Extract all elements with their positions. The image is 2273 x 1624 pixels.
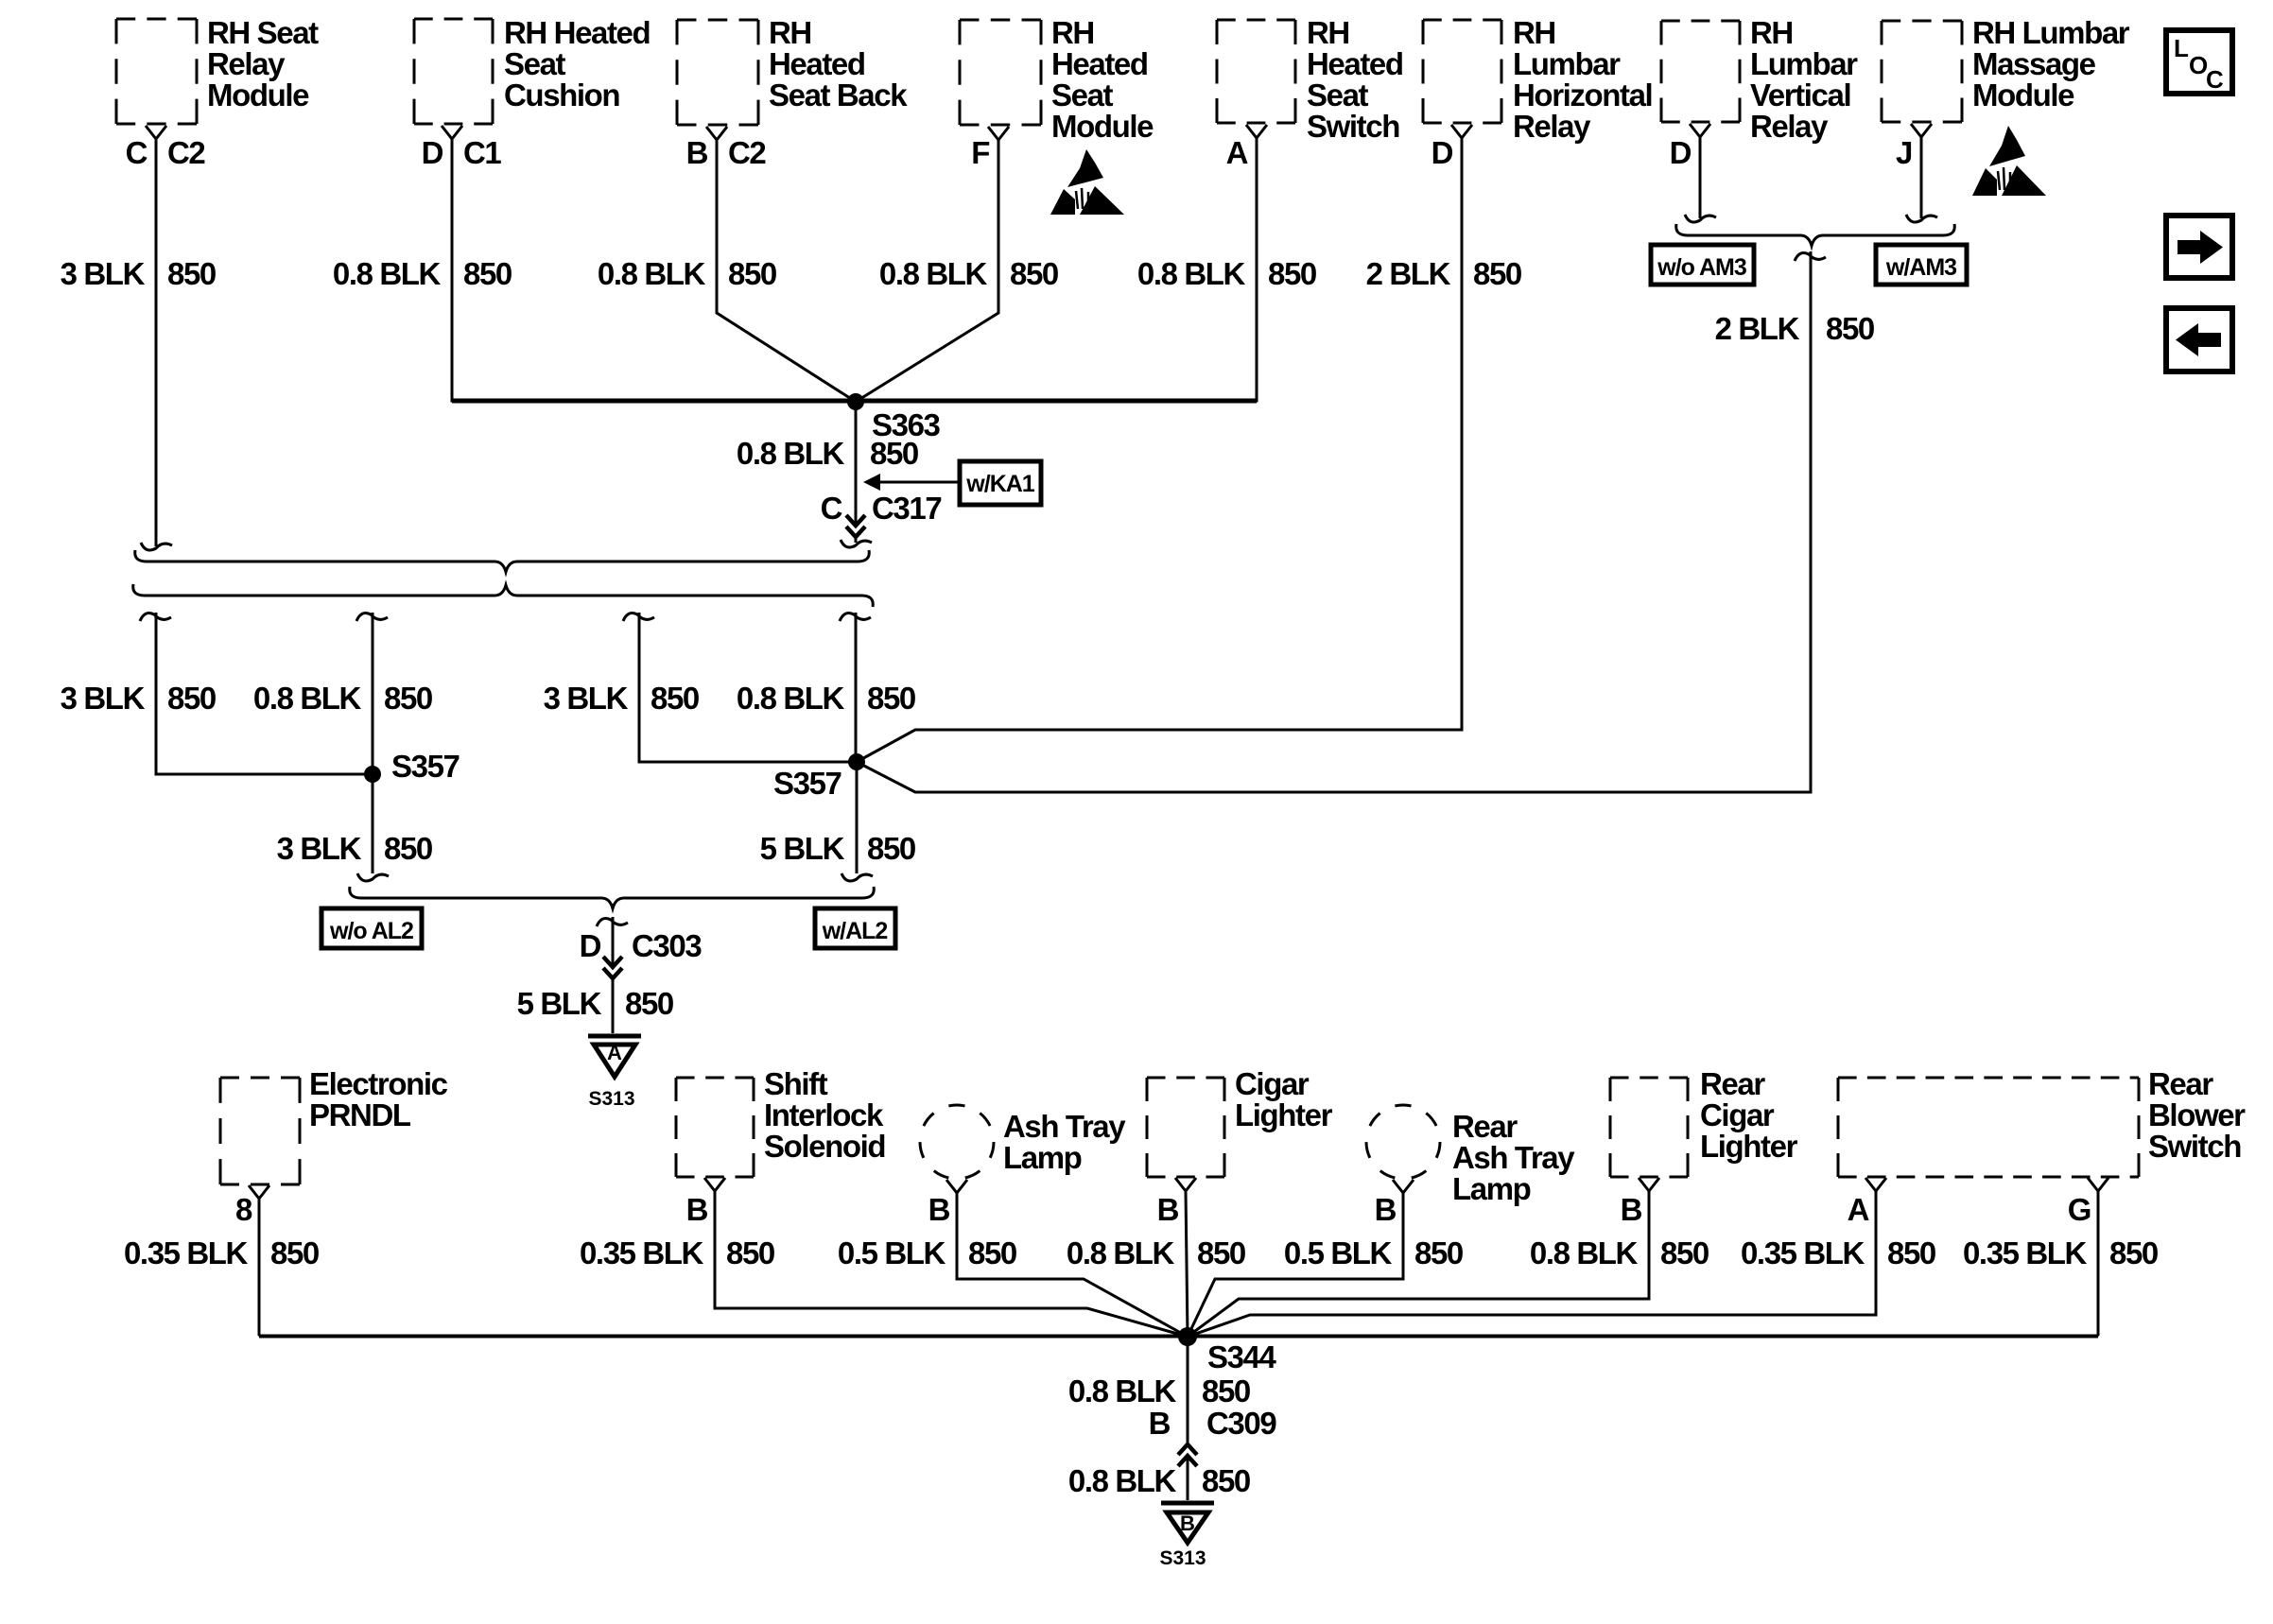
ESD sensitive device symbol near RH Lumbar Massage Module xyxy=(1972,126,2046,196)
svg-text:Lumbar: Lumbar xyxy=(1750,46,1858,81)
svg-text:S313: S313 xyxy=(588,1088,634,1110)
wire label 0.35 BLK 850 xyxy=(124,1235,319,1270)
wire: 0.8 BLK 850 from pin B down then diagonal to splice S363 xyxy=(717,140,856,402)
option tag box: w/o AL2 xyxy=(321,908,422,948)
svg-text:RH Heated: RH Heated xyxy=(504,15,650,50)
component: RH Lumbar Horizontal Relay (dashed box) xyxy=(1423,20,1501,123)
svg-text:Lighter: Lighter xyxy=(1700,1129,1798,1164)
wire: 0.35 BLK 850 from PRNDL pin 8 to splice S344 xyxy=(259,1199,261,1337)
svg-text:0.35 BLK: 0.35 BLK xyxy=(580,1235,704,1270)
wire: 0.8 BLK 850 from pin A down then left to splice S363 xyxy=(856,138,1257,401)
wire: 0.35 BLK 850 from Shift Interlock Solenoid to splice S344 xyxy=(715,1191,1188,1337)
svg-text:850: 850 xyxy=(384,681,432,716)
wire: 0.8 BLK 850 from Cigar Lighter down to splice S344 xyxy=(1186,1191,1188,1337)
svg-text:Rear: Rear xyxy=(1700,1066,1765,1101)
component: RH Heated Seat Module (dashed box) xyxy=(960,20,1041,125)
component: Shift Interlock Solenoid (dashed box) xyxy=(676,1078,754,1177)
wire label 0.35 BLK 850 xyxy=(580,1235,774,1270)
label S313 under ground B xyxy=(1159,1547,1206,1569)
pin B / connector C2 of RH Heated Seat Back xyxy=(686,127,767,170)
ESD sensitive device symbol near RH Heated Seat Module xyxy=(1050,149,1124,215)
svg-text:C1: C1 xyxy=(463,135,501,170)
svg-text:C: C xyxy=(126,135,147,170)
wire label 0.8 BLK 850 xyxy=(1530,1235,1709,1270)
svg-text:RH: RH xyxy=(1051,15,1094,50)
wire label 2 BLK 850 (merged AM3 branch) xyxy=(1715,311,1874,346)
svg-text:D: D xyxy=(1431,135,1453,170)
svg-text:w/o AL2: w/o AL2 xyxy=(329,918,413,944)
svg-text:w/AM3: w/AM3 xyxy=(1885,254,1956,281)
option arrow w/KA1 pointing at C317 wire xyxy=(863,461,1041,505)
svg-text:Rear: Rear xyxy=(1452,1109,1518,1144)
connector C309 pin B (in-line connector symbol, arrow up) xyxy=(1149,1406,1277,1466)
svg-text:Relay: Relay xyxy=(1513,109,1591,144)
svg-text:w/KA1: w/KA1 xyxy=(965,471,1035,497)
pin B of Cigar Lighter xyxy=(1157,1178,1196,1227)
svg-text:850: 850 xyxy=(1197,1235,1245,1270)
svg-text:Vertical: Vertical xyxy=(1750,78,1850,112)
svg-text:0.8 BLK: 0.8 BLK xyxy=(598,256,706,291)
component: Cigar Lighter (dashed box) xyxy=(1147,1078,1224,1177)
svg-text:B: B xyxy=(1149,1406,1171,1441)
svg-text:850: 850 xyxy=(1202,1373,1250,1408)
svg-text:B: B xyxy=(928,1192,950,1227)
svg-text:Module: Module xyxy=(1051,109,1154,144)
svg-text:L: L xyxy=(2174,34,2189,62)
svg-text:C309: C309 xyxy=(1206,1406,1276,1441)
splice S363 junction dot xyxy=(847,393,864,410)
svg-text:F: F xyxy=(971,135,989,170)
svg-text:G: G xyxy=(2068,1192,2091,1227)
svg-text:0.8 BLK: 0.8 BLK xyxy=(879,256,988,291)
svg-text:850: 850 xyxy=(1202,1463,1250,1498)
svg-text:Ash Tray: Ash Tray xyxy=(1452,1140,1575,1175)
svg-text:5 BLK: 5 BLK xyxy=(517,986,602,1021)
ground triangle A (S313) xyxy=(588,1036,641,1077)
wire label 0.8 BLK 850 below S363 xyxy=(737,436,918,471)
label: Cigar Lighter text xyxy=(1235,1066,1333,1132)
component: RH Heated Seat Cushion (dashed box) xyxy=(414,19,493,124)
pin A of RH Heated Seat Switch xyxy=(1226,125,1267,170)
svg-text:850: 850 xyxy=(870,436,918,471)
svg-text:S313: S313 xyxy=(1159,1547,1206,1569)
svg-text:Lighter: Lighter xyxy=(1235,1097,1333,1132)
svg-text:850: 850 xyxy=(728,256,776,291)
harness brace 1 (wires bundled toward C317) xyxy=(135,550,870,572)
svg-text:3 BLK: 3 BLK xyxy=(277,831,362,866)
svg-text:Lumbar: Lumbar xyxy=(1513,46,1621,81)
ground triangle B (S313) xyxy=(1161,1503,1214,1543)
svg-text:D: D xyxy=(1670,135,1692,170)
pin C / connector C2 of RH Seat Relay Module xyxy=(126,126,206,170)
wire: splice bus through S344 (main horizontal) xyxy=(259,1335,2098,1339)
wire: 0.8 BLK 850 from pin D down and right to splice S363 xyxy=(452,139,854,401)
wire: 3 BLK 850 left branch into splice S357 (right) xyxy=(623,613,855,762)
wire label 0.8 BLK 850 xyxy=(253,681,432,716)
svg-text:850: 850 xyxy=(1268,256,1316,291)
wire label 5 BLK 850 xyxy=(517,986,673,1021)
wire label 0.8 BLK 850 xyxy=(333,256,512,291)
label S363 xyxy=(872,407,941,442)
component: Rear Cigar Lighter (dashed box) xyxy=(1610,1078,1688,1177)
wire: 2 BLK 850 from pin D down to splice S357 xyxy=(857,138,1462,762)
wire label 0.8 BLK 850 xyxy=(1068,1463,1250,1498)
svg-text:Switch: Switch xyxy=(1307,109,1399,144)
svg-text:2 BLK: 2 BLK xyxy=(1715,311,1800,346)
svg-text:3 BLK: 3 BLK xyxy=(61,256,146,291)
wire: from RH Lumbar Vertical Relay pin D down to w/o AM3 break xyxy=(1685,137,1716,222)
svg-text:850: 850 xyxy=(1414,1235,1463,1270)
option tag box: w/AM3 xyxy=(1876,245,1967,285)
svg-text:B: B xyxy=(1621,1192,1642,1227)
svg-text:Interlock: Interlock xyxy=(764,1097,884,1132)
wire: 3 BLK 850 from S357 (left) down to AL2 break xyxy=(357,774,389,881)
svg-text:3 BLK: 3 BLK xyxy=(61,681,146,716)
svg-text:B: B xyxy=(686,135,708,170)
wire label 0.8 BLK 850 xyxy=(879,256,1058,291)
wire label 3 BLK 850 xyxy=(61,256,216,291)
wire label 5 BLK 850 below S357 (right) xyxy=(760,831,915,866)
svg-text:B: B xyxy=(1180,1512,1195,1535)
svg-text:Cushion: Cushion xyxy=(504,78,619,112)
svg-text:0.8 BLK: 0.8 BLK xyxy=(1137,256,1246,291)
wire label 0.8 BLK 850 xyxy=(1067,1235,1245,1270)
svg-text:850: 850 xyxy=(384,831,432,866)
svg-text:C317: C317 xyxy=(872,491,941,526)
wire label 0.8 BLK 850 xyxy=(598,256,776,291)
svg-text:Module: Module xyxy=(1972,78,2074,112)
svg-text:Seat Back: Seat Back xyxy=(769,78,908,112)
svg-text:C: C xyxy=(2206,65,2224,94)
pin D of RH Lumbar Vertical Relay xyxy=(1670,124,1710,170)
svg-text:RH Lumbar: RH Lumbar xyxy=(1972,15,2130,50)
svg-text:Seat: Seat xyxy=(504,46,566,81)
wire: 3 BLK 850 from RH Seat Relay Module pin C down to harness break xyxy=(141,139,172,550)
svg-text:w/AL2: w/AL2 xyxy=(822,918,888,944)
svg-text:Cigar: Cigar xyxy=(1235,1066,1310,1101)
svg-text:850: 850 xyxy=(1010,256,1058,291)
svg-text:C: C xyxy=(821,491,842,526)
component: RH Heated Seat Switch (dashed box) xyxy=(1217,20,1295,123)
svg-text:850: 850 xyxy=(1826,311,1874,346)
label: RH Lumbar Horizontal Relay text xyxy=(1513,15,1652,144)
svg-text:0.8 BLK: 0.8 BLK xyxy=(1068,1463,1177,1498)
svg-text:PRNDL: PRNDL xyxy=(309,1097,411,1132)
wire: 0.8 BLK 850 from C309 down to ground S313 xyxy=(1187,1456,1189,1500)
svg-text:5 BLK: 5 BLK xyxy=(760,831,845,866)
svg-text:A: A xyxy=(1848,1192,1869,1227)
splice S357 (left) junction dot xyxy=(364,766,381,783)
pin G of Rear Blower Switch xyxy=(2068,1178,2108,1227)
pin B of Rear Cigar Lighter xyxy=(1621,1178,1659,1227)
svg-text:Lamp: Lamp xyxy=(1003,1140,1082,1175)
svg-text:RH: RH xyxy=(1307,15,1349,50)
svg-text:RH: RH xyxy=(769,15,811,50)
pin 8 of Electronic PRNDL xyxy=(235,1185,269,1227)
wire label 2 BLK 850 xyxy=(1366,256,1521,291)
option tag box: w/AL2 xyxy=(815,908,895,948)
wire label 3 BLK 850 xyxy=(544,681,699,716)
svg-text:D: D xyxy=(422,135,443,170)
svg-text:0.8 BLK: 0.8 BLK xyxy=(1067,1235,1175,1270)
svg-text:C2: C2 xyxy=(167,135,205,170)
wire label 0.5 BLK 850 xyxy=(1284,1235,1463,1270)
wire: 5 BLK 850 from S357 (right) down to AL2 break xyxy=(842,762,873,881)
splice S344 junction dot xyxy=(1178,1327,1197,1346)
svg-text:Solenoid: Solenoid xyxy=(764,1129,885,1164)
component: Rear Ash Tray Lamp (dashed circle) xyxy=(1366,1105,1440,1179)
svg-text:Massage: Massage xyxy=(1972,46,2096,81)
wire: 0.8 BLK 850 from Rear Cigar Lighter to splice S344 xyxy=(1188,1191,1649,1337)
harness brace 2 (wires fanned out) xyxy=(133,584,874,607)
label: RH Seat Relay Module text xyxy=(207,15,319,112)
wire label 0.8 BLK 850 xyxy=(1068,1373,1250,1408)
svg-text:D: D xyxy=(580,928,601,963)
svg-text:0.8 BLK: 0.8 BLK xyxy=(1068,1373,1177,1408)
svg-text:Electronic: Electronic xyxy=(309,1066,448,1101)
svg-text:S344: S344 xyxy=(1207,1339,1277,1374)
svg-text:Module: Module xyxy=(207,78,309,112)
wire label 0.35 BLK 850 (pin G) xyxy=(1963,1235,2158,1270)
wire: splice bus through S363 (horizontal) xyxy=(452,399,1257,404)
svg-text:Heated: Heated xyxy=(1051,46,1148,81)
svg-text:850: 850 xyxy=(167,681,216,716)
page icon: LOC box xyxy=(2166,30,2232,94)
svg-text:850: 850 xyxy=(968,1235,1016,1270)
pin D / connector C1 of RH Heated Seat Cushion xyxy=(422,126,502,170)
page icon: arrow left box xyxy=(2166,308,2232,371)
wire label 0.8 BLK 850 xyxy=(1137,256,1316,291)
svg-text:0.8 BLK: 0.8 BLK xyxy=(253,681,362,716)
wire label 0.8 BLK 850 xyxy=(737,681,915,716)
wire: 0.8 BLK 850 from S344 down to connector C309 xyxy=(1187,1337,1189,1444)
label: RH Lumbar Vertical Relay text xyxy=(1750,15,1858,144)
svg-text:Switch: Switch xyxy=(2148,1129,2241,1164)
svg-text:Heated: Heated xyxy=(1307,46,1403,81)
svg-text:Horizontal: Horizontal xyxy=(1513,78,1652,112)
svg-text:850: 850 xyxy=(1660,1235,1709,1270)
svg-text:Heated: Heated xyxy=(769,46,865,81)
svg-text:3 BLK: 3 BLK xyxy=(544,681,629,716)
label: RH Heated Seat Cushion text xyxy=(504,15,650,112)
svg-text:A: A xyxy=(1226,135,1248,170)
harness brace joining w/o AM3 and w/AM3 branches xyxy=(1676,224,1955,246)
svg-text:850: 850 xyxy=(625,986,673,1021)
svg-text:S357: S357 xyxy=(391,749,460,784)
page icon: arrow right box xyxy=(2166,216,2232,278)
svg-text:8: 8 xyxy=(235,1192,252,1227)
pin B of Ash Tray Lamp xyxy=(928,1180,967,1227)
component: Ash Tray Lamp (dashed circle) xyxy=(920,1105,994,1179)
label: Rear Ash Tray Lamp text xyxy=(1452,1109,1575,1206)
svg-text:850: 850 xyxy=(867,681,915,716)
svg-text:2 BLK: 2 BLK xyxy=(1366,256,1451,291)
option tag box: w/o AM3 xyxy=(1651,245,1754,285)
label: RH Heated Seat Back text xyxy=(769,15,908,112)
wire: merged AL2 branch down to connector C303 xyxy=(597,917,628,965)
svg-text:C2: C2 xyxy=(728,135,766,170)
wire label 3 BLK 850 xyxy=(61,681,216,716)
pin B of Shift Interlock Solenoid xyxy=(686,1178,725,1227)
pin A of Rear Blower Switch xyxy=(1848,1178,1886,1227)
svg-text:C303: C303 xyxy=(632,928,702,963)
svg-text:Seat: Seat xyxy=(1307,78,1369,112)
svg-text:850: 850 xyxy=(651,681,699,716)
svg-text:Ash Tray: Ash Tray xyxy=(1003,1109,1126,1144)
label: RH Heated Seat Module text xyxy=(1051,15,1154,144)
label S313 under ground A xyxy=(588,1088,634,1110)
label: RH Lumbar Massage Module text xyxy=(1972,15,2130,112)
label: Shift Interlock Solenoid text xyxy=(764,1066,885,1164)
label: Electronic PRNDL text xyxy=(309,1066,448,1132)
component: RH Lumbar Vertical Relay (dashed box) xyxy=(1661,21,1740,122)
harness brace joining w/o AL2 and w/AL2 branches xyxy=(350,887,875,908)
label: Ash Tray Lamp text xyxy=(1003,1109,1126,1175)
wire: 2 BLK 850 merged AM3 branch down to splice S357 xyxy=(857,251,1826,792)
component: RH Seat Relay Module (dashed box) xyxy=(116,19,197,124)
component: RH Lumbar Massage Module (dashed box) xyxy=(1882,21,1962,122)
component: RH Heated Seat Back (dashed box) xyxy=(677,20,758,125)
wire: 0.5 BLK 850 from Rear Ash Tray Lamp to splice S344 xyxy=(1188,1193,1403,1337)
wire: 0.35 BLK 850 from Rear Blower Switch pin G to splice S344 xyxy=(2096,1191,2098,1337)
svg-text:Blower: Blower xyxy=(2148,1097,2246,1132)
connector C303 pin D (in-line connector symbol) xyxy=(580,928,703,978)
svg-text:Shift: Shift xyxy=(764,1066,828,1101)
svg-text:RH Seat: RH Seat xyxy=(207,15,319,50)
svg-text:850: 850 xyxy=(2109,1235,2158,1270)
svg-text:B: B xyxy=(1375,1192,1397,1227)
wire: from RH Lumbar Massage Module pin J down to w/AM3 break xyxy=(1906,137,1937,222)
svg-text:B: B xyxy=(686,1192,708,1227)
label: Rear Cigar Lighter text xyxy=(1700,1066,1798,1164)
svg-text:850: 850 xyxy=(1887,1235,1935,1270)
svg-text:0.5 BLK: 0.5 BLK xyxy=(838,1235,946,1270)
svg-text:850: 850 xyxy=(867,831,915,866)
wire: 5 BLK 850 from C303 down to ground S313 xyxy=(612,978,615,1033)
svg-text:0.35 BLK: 0.35 BLK xyxy=(1963,1235,2088,1270)
svg-text:Seat: Seat xyxy=(1051,78,1114,112)
wire: 0.8 BLK 850 branch into splice S357 (right) xyxy=(840,613,871,762)
label S357 (right) xyxy=(773,766,842,801)
wire label 0.5 BLK 850 xyxy=(838,1235,1016,1270)
component: Rear Blower Switch (dashed box) xyxy=(1838,1078,2139,1177)
wire: 3 BLK 850 left branch into splice S357 (left) xyxy=(140,613,371,774)
wire: 0.5 BLK 850 from Ash Tray Lamp to splice S344 xyxy=(957,1193,1188,1337)
pin J of RH Lumbar Massage Module xyxy=(1896,124,1932,170)
svg-text:0.8 BLK: 0.8 BLK xyxy=(333,256,442,291)
wire: 0.8 BLK 850 branch into splice S357 (left) xyxy=(356,613,388,774)
svg-text:w/o AM3: w/o AM3 xyxy=(1657,254,1746,281)
svg-text:A: A xyxy=(607,1041,622,1064)
connector C317 pin C (in-line connector symbol) xyxy=(821,491,942,547)
svg-text:Rear: Rear xyxy=(2148,1066,2213,1101)
svg-text:J: J xyxy=(1896,135,1912,170)
pin D of RH Lumbar Horizontal Relay xyxy=(1431,125,1472,170)
svg-text:Relay: Relay xyxy=(1750,109,1829,144)
pin F of RH Heated Seat Module xyxy=(971,127,1009,170)
label: Rear Blower Switch text xyxy=(2148,1066,2246,1164)
svg-text:Cigar: Cigar xyxy=(1700,1097,1775,1132)
svg-text:850: 850 xyxy=(270,1235,319,1270)
svg-text:B: B xyxy=(1157,1192,1179,1227)
label: RH Heated Seat Switch text xyxy=(1307,15,1403,144)
svg-text:0.35 BLK: 0.35 BLK xyxy=(1741,1235,1865,1270)
svg-text:0.8 BLK: 0.8 BLK xyxy=(1530,1235,1639,1270)
svg-text:0.5 BLK: 0.5 BLK xyxy=(1284,1235,1393,1270)
svg-text:850: 850 xyxy=(167,256,216,291)
svg-text:850: 850 xyxy=(1473,256,1521,291)
svg-text:0.35 BLK: 0.35 BLK xyxy=(124,1235,249,1270)
svg-text:850: 850 xyxy=(463,256,512,291)
svg-text:0.8 BLK: 0.8 BLK xyxy=(737,436,845,471)
svg-text:Lamp: Lamp xyxy=(1452,1171,1531,1206)
svg-text:Relay: Relay xyxy=(207,46,286,81)
wire label 3 BLK 850 below S357 (left) xyxy=(277,831,432,866)
svg-text:RH: RH xyxy=(1513,15,1555,50)
wire label 0.35 BLK 850 (pin A) xyxy=(1741,1235,1935,1270)
svg-text:S357: S357 xyxy=(773,766,842,801)
pin B of Rear Ash Tray Lamp xyxy=(1375,1180,1414,1227)
label S344 xyxy=(1207,1339,1277,1374)
wire: 0.8 BLK 850 from pin F down then diagonal to splice S363 xyxy=(856,140,998,402)
wire: 0.8 BLK 850 from S363 down to connector C317 xyxy=(855,402,858,524)
svg-text:RH: RH xyxy=(1750,15,1793,50)
label S357 (left) xyxy=(391,749,460,784)
splice S357 (right) junction dot xyxy=(848,753,865,770)
svg-text:0.8 BLK: 0.8 BLK xyxy=(737,681,845,716)
svg-text:850: 850 xyxy=(726,1235,774,1270)
wire: 0.35 BLK 850 from Rear Blower Switch pin A to splice S344 xyxy=(1188,1191,1876,1337)
component: Electronic PRNDL (dashed box) xyxy=(220,1078,300,1184)
